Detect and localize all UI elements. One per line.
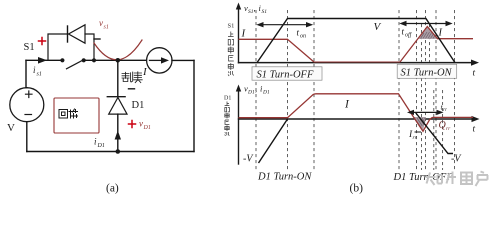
label D1 [132,100,145,111]
svg-text:s1: s1 [37,72,42,78]
svg-text:t: t [473,69,476,79]
t axis (top) [238,60,479,66]
svg-text:D1: D1 [262,90,270,96]
label i_s1 [33,65,42,78]
node: D1 bottom junction [116,149,121,154]
grid line t10 (bottom chart only) [433,90,435,170]
wire snubber-loop left vertical [48,34,68,60]
label t_rr [441,103,447,114]
label I_rr with tick [408,130,421,141]
svg-text:s1: s1 [104,25,109,31]
rotated axis caption D1上的电压电流 (approximated glyphs) [224,96,231,136]
grid line t8 (top chart only) [429,24,431,63]
S1 Turn-ON label box [397,64,457,78]
node: loop right junction [92,58,96,62]
label I (plateau) [344,99,350,111]
label 回路 (approximated glyphs) [59,109,78,118]
minus sign (v_D1 polarity) [129,88,135,90]
label I (current source) [142,66,148,78]
t_rr measuring double arrow [407,110,444,115]
svg-text:,: , [255,84,257,94]
grid line t2 [287,10,289,171]
t_on measuring double arrow [256,22,313,27]
node: switch right contact [82,58,86,62]
reverse-recovery overshoot shaded triangle (top) [419,27,438,39]
diode D1 triangle [109,98,127,115]
diode (top clamp) triangle [69,25,86,43]
svg-text:I: I [438,28,443,39]
wire source top [25,60,28,87]
svg-text:D1 Turn-OFF: D1 Turn-OFF [393,172,454,183]
v_s1 black waveform: turn-off rise, V plateau, turn-on fall [257,19,455,63]
label t (bottom axis) [473,125,476,135]
y axis (v_s1, i_s1) [236,3,241,64]
svg-text:D1 Turn-ON: D1 Turn-ON [257,172,312,183]
wire bottom rail [27,151,194,153]
label I (right, current level) [438,28,443,39]
node: switch left contact [60,58,64,62]
label t_on [297,28,307,40]
svg-text:S1: S1 [24,42,35,53]
label -V (right) [451,154,462,165]
grid line t6 [421,24,423,170]
wire main horizontal middle [84,59,147,61]
label V (plateau) [374,21,382,33]
svg-text:V: V [7,122,15,134]
diode (top clamp) cathode bar [67,26,69,42]
label V [7,122,15,134]
i_D1 red waveform: zero, rise, I plateau, fall with recovery dip, zero [239,94,474,132]
wire source bottom to bottom rail [26,122,28,152]
watermark 知乎用户 (approximated glyphs) [426,172,488,187]
svg-text:S1: S1 [228,23,235,30]
y axis (v_D1, i_D1) [236,85,241,165]
label D1 Turn-OFF [393,172,454,183]
svg-text:D1: D1 [97,143,105,149]
loop box 回路 [54,98,99,133]
D1 branch wire lower [117,114,119,151]
current source circle [147,48,172,73]
label (a) [106,183,119,195]
switch S1 blade (open) [67,60,83,69]
label (b) [350,183,364,195]
v_D1 black waveform: rise from -V to zero (turn-on) [259,119,288,163]
svg-text:(a): (a) [106,183,119,195]
label Q_rr [439,120,452,132]
label v_D1 [139,119,151,132]
label D1 Turn-ON [257,172,312,183]
label -V (left) [243,154,254,165]
label v_s1 [99,18,109,31]
D1 branch wire upper [117,60,119,96]
svg-text:(b): (b) [350,183,364,195]
svg-text:rr: rr [443,108,447,113]
node A: D1 top junction [116,58,121,63]
svg-text:S1 Turn-OFF: S1 Turn-OFF [257,69,314,80]
svg-text:v: v [139,119,143,129]
minus sign (v_s1 polarity) [94,38,100,40]
svg-text:t: t [473,125,476,135]
svg-text:v: v [99,18,103,28]
plus sign (v_D1 polarity) [129,121,136,128]
grid line t11 (bottom chart only) [442,90,444,170]
reverse-recovery charge shaded triangle (bottom) [413,117,426,131]
svg-text:D1: D1 [132,100,145,111]
i_s1 red waveform: turn-on rise with overshoot then I level [400,27,473,63]
t_off measuring double arrow [399,21,452,26]
svg-text:on: on [300,34,306,40]
rotated axis caption S1上的电压电流 (approximated glyphs) [228,23,235,77]
label S1 [24,42,35,53]
label cut-set 割集 (approximated glyphs) [122,72,142,83]
svg-text:S1: S1 [262,9,268,15]
wire current source to right rail [172,59,194,61]
label t (top axis) [473,69,476,79]
wire top-left horizontal [26,59,62,61]
label i_D1 [94,137,105,150]
S1 Turn-OFF label box [252,67,322,81]
cut-set red arc [94,40,142,60]
v_D1 black waveform: fall to -V (turn-off) [416,113,454,154]
current direction arrow i_D1 [115,131,121,140]
svg-text:S1 Turn-ON: S1 Turn-ON [401,67,453,78]
svg-text:D1: D1 [143,125,151,131]
diode D1 cathode bar [107,96,125,98]
grid line t9 [435,10,437,171]
grid line t4 [398,10,400,171]
y axis label v_D1 , i_D1 [244,84,270,96]
grid line t7 [425,10,427,171]
i_s1 red waveform: zero level [314,61,400,63]
svg-text:,: , [254,3,256,13]
wire snubber-loop right side [85,34,94,60]
wire right rail vertical [193,60,195,151]
current direction arrow i_s1 [38,57,47,64]
t axis (bottom) [238,116,480,122]
grid line t1 [255,10,257,171]
i_s1 red waveform: I level then turn-off fall [239,39,315,62]
source V plus [26,91,33,98]
svg-text:D1: D1 [247,90,255,96]
svg-text:D1: D1 [224,96,231,102]
grid line t5 [416,10,418,171]
plus sign (v_s1 polarity) [39,38,46,45]
current source arrow [150,57,170,63]
y axis label v_s1 , i_s1 [244,3,267,15]
source V minus [25,114,32,116]
grid line t12 [454,10,456,171]
label I (left, current level) [241,28,247,40]
grid line t3 [313,10,315,171]
source V circle [10,88,44,122]
label t_off [402,27,413,39]
